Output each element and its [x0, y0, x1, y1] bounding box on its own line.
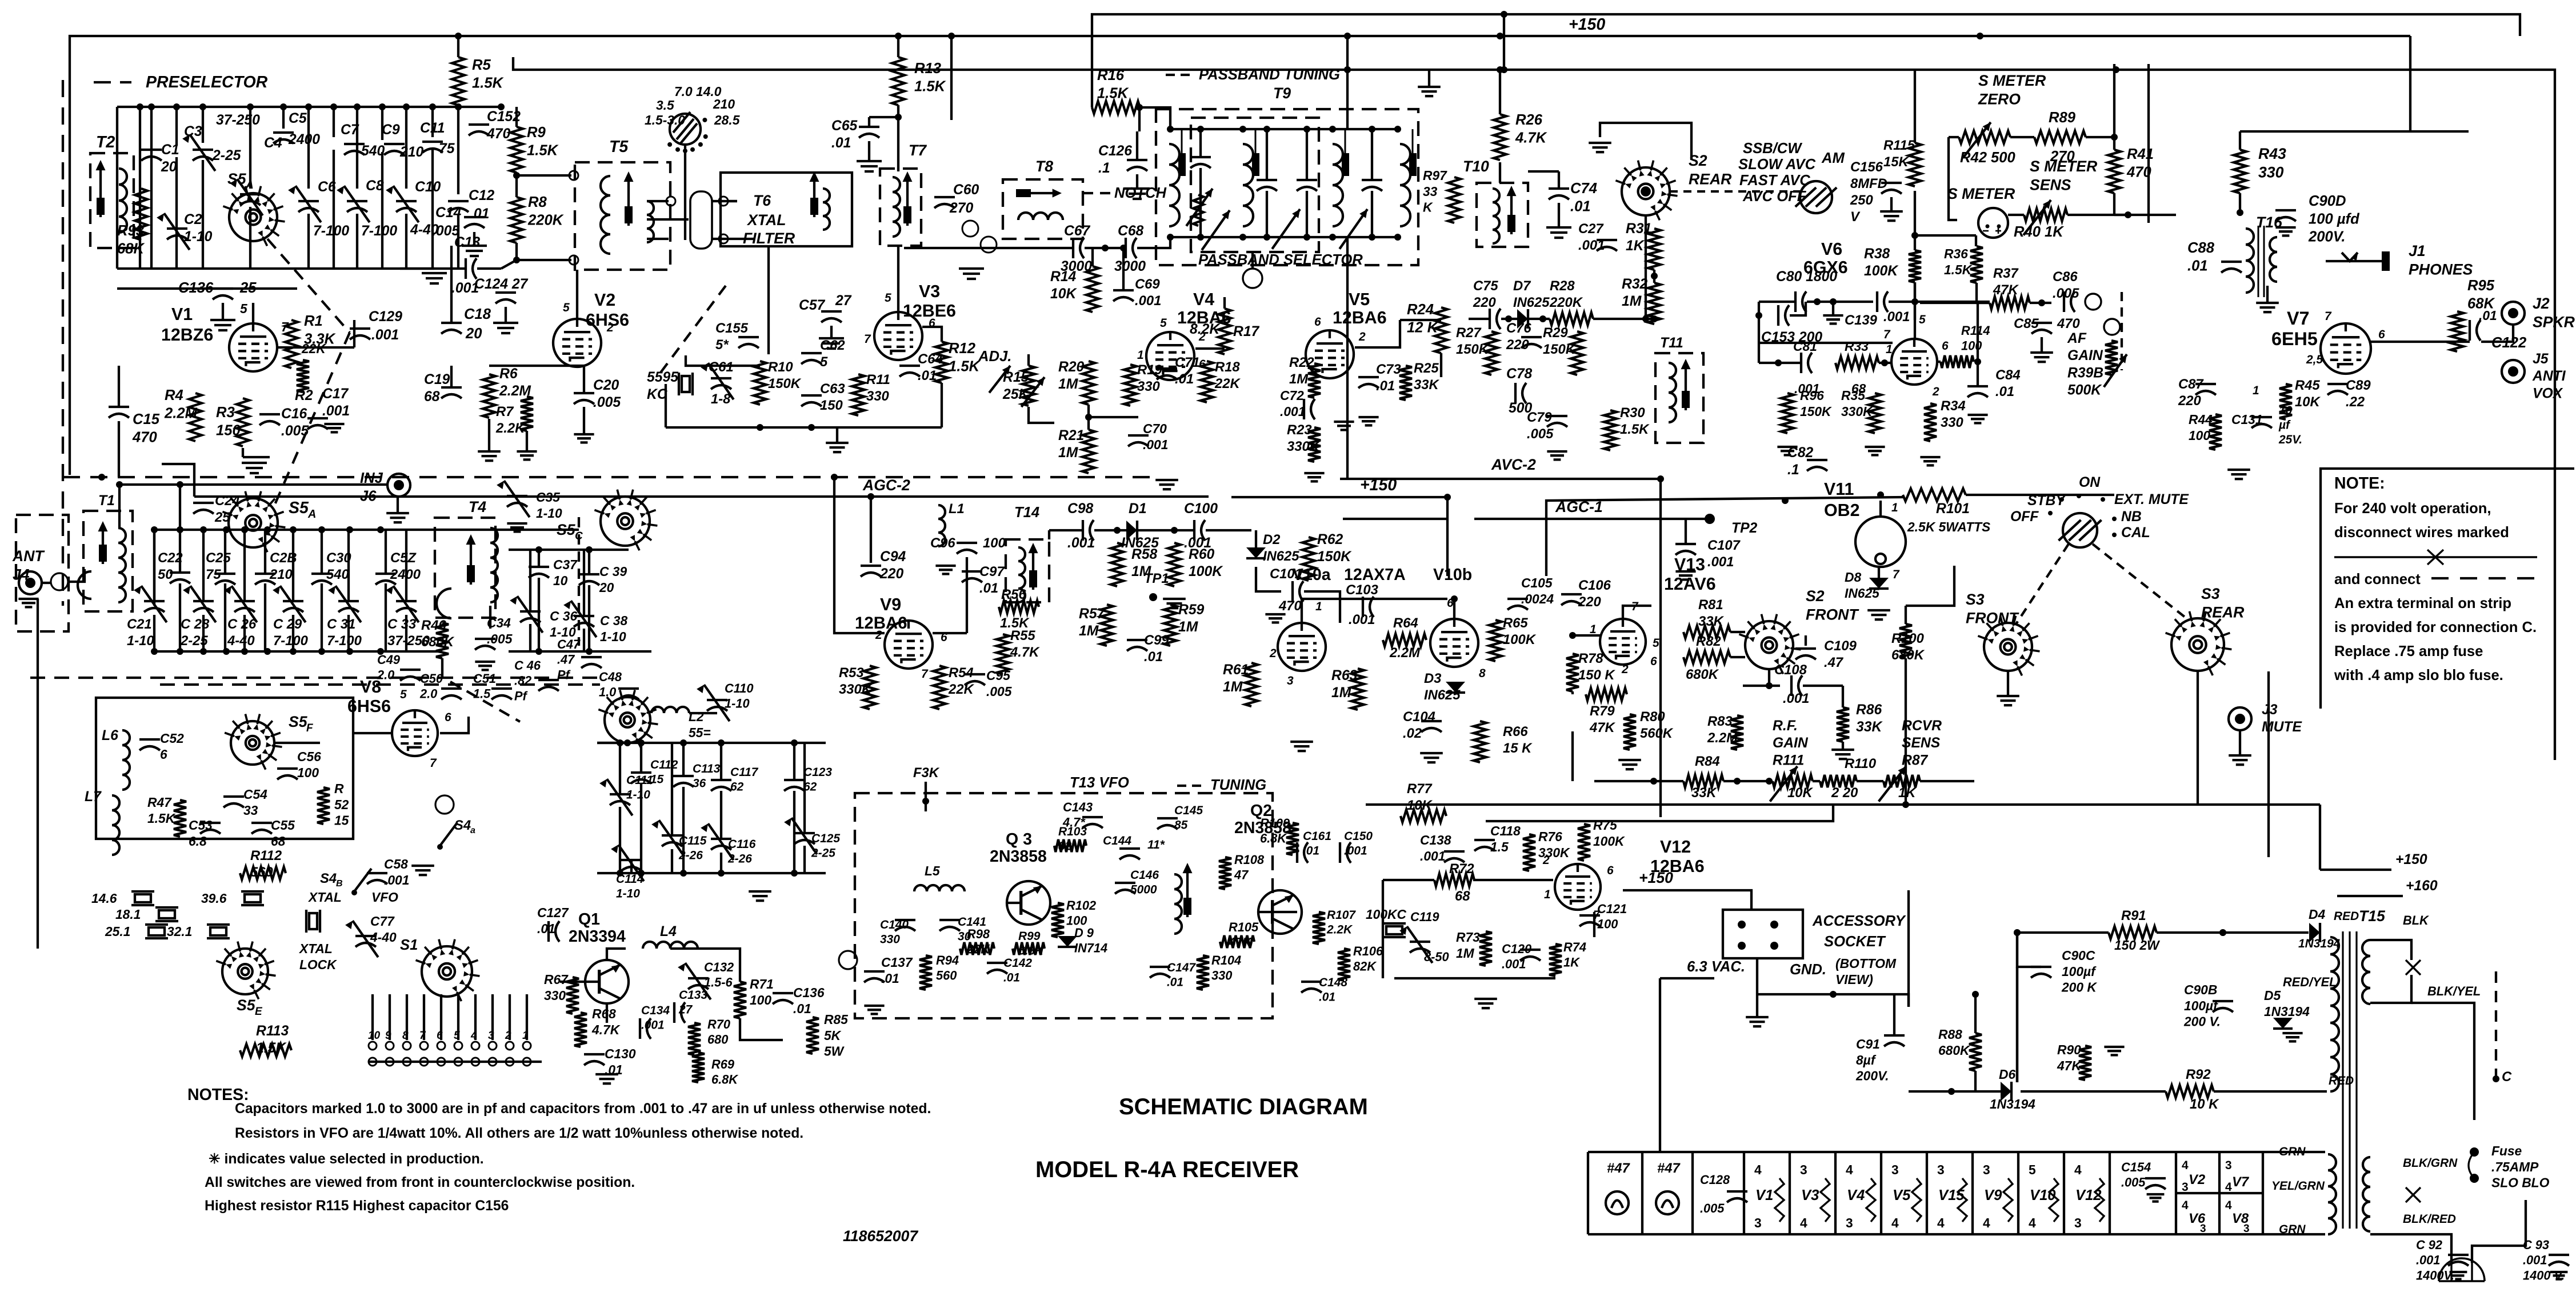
tube V7 heater 3: [2225, 1159, 2232, 1172]
capacitor C128 label: [1700, 1173, 1730, 1187]
junction T9 rail 2332: [1329, 126, 1336, 133]
capacitor C138 label: [1420, 833, 1451, 863]
capacitor C28b label: [269, 550, 297, 582]
capacitor C127 label: [537, 905, 569, 936]
wire osc right col: [941, 383, 943, 427]
svg-text:R108: R108: [1234, 853, 1265, 867]
transformer T1 box: [83, 511, 133, 611]
resistor R56 label: [1001, 587, 1026, 602]
resistor R84 value: [1691, 785, 1717, 801]
svg-text:100: 100: [1597, 917, 1618, 931]
wire heater bar v2: [2175, 1152, 2177, 1234]
capacitor C65: [859, 127, 879, 138]
transformer T5 label: [609, 138, 629, 156]
svg-text:R32: R32: [1622, 277, 1648, 292]
svg-text:27: 27: [678, 1003, 693, 1016]
transistor Q3 label: [1006, 830, 1032, 849]
svg-text:C97: C97: [979, 564, 1005, 579]
node AVC OFF: [1742, 189, 1807, 205]
switch S5A sub: [245, 179, 254, 191]
transformer T16 secondary: [2270, 237, 2277, 282]
svg-text:28.5: 28.5: [714, 113, 740, 127]
svg-text:C65: C65: [831, 118, 858, 134]
junction R43 bot: [2237, 209, 2243, 216]
svg-text:2: 2: [1621, 663, 1629, 676]
svg-text:S4: S4: [454, 818, 471, 833]
resistor R28 label: [1549, 278, 1583, 310]
resistor R64: [1383, 634, 1426, 646]
junction s5c d: [586, 648, 593, 655]
svg-text:6: 6: [1607, 864, 1614, 877]
node dial 1.5-3.0: [645, 113, 685, 127]
resistor R16: [1092, 101, 1140, 114]
node ON label: [2079, 475, 2101, 490]
svg-text:R46: R46: [421, 618, 446, 633]
svg-text:C145: C145: [1174, 804, 1203, 817]
resistor R89: [2034, 131, 2086, 143]
resistor R3: [237, 398, 249, 446]
svg-text:C21: C21: [127, 617, 152, 632]
svg-text:.001: .001: [1420, 849, 1445, 863]
svg-text:C108: C108: [1774, 662, 1807, 678]
svg-text:20: 20: [465, 326, 482, 342]
ground J1: [2256, 303, 2279, 312]
switch S1 terminal 7: [420, 1042, 428, 1050]
svg-text:1M: 1M: [1456, 946, 1475, 961]
svg-text:T8: T8: [1035, 158, 1053, 175]
svg-text:R83: R83: [1707, 714, 1733, 729]
svg-text:R31: R31: [1626, 221, 1651, 237]
svg-text:15: 15: [334, 813, 349, 828]
capacitor C37: [529, 567, 549, 578]
jack J6: [387, 474, 410, 497]
resistor R108: [1219, 857, 1231, 889]
crystal 5595KC label: [647, 370, 679, 402]
ground R34: [1920, 457, 1940, 465]
svg-text:S METER: S METER: [1947, 185, 2015, 202]
node NOTES title: [187, 1086, 249, 1104]
junction R26 top: [1497, 66, 1503, 73]
svg-text:C99: C99: [1144, 633, 1169, 648]
svg-text:R88: R88: [1938, 1027, 1962, 1042]
node XTAL LOCK label: [298, 941, 337, 972]
wire vert x2358 a: [1346, 36, 1349, 129]
wire S2f to C108: [1768, 669, 1770, 686]
diode D5 label: [2264, 988, 2310, 1019]
junction extra 3291-866: [1877, 491, 1884, 498]
switch S5A: [223, 186, 285, 246]
svg-text:T13 VFO: T13 VFO: [1070, 775, 1129, 791]
svg-text:R92: R92: [2186, 1067, 2211, 1082]
node NOTE l2: [2334, 525, 2509, 541]
wire t3 col C117 b: [720, 791, 722, 838]
capacitor C100 value: [1184, 535, 1211, 551]
svg-text:C 33: C 33: [387, 617, 416, 632]
capacitor C140: [895, 920, 915, 931]
switch S5A mixer: [222, 491, 285, 553]
svg-text:RCVR: RCVR: [1902, 718, 1942, 734]
svg-text:R54: R54: [949, 665, 974, 681]
svg-text:150K: 150K: [1456, 342, 1490, 357]
capacitor C110 label: [725, 681, 754, 711]
capacitor C128 value: [1700, 1201, 1725, 1215]
svg-text:39.6: 39.6: [201, 891, 227, 906]
resistor R110 label: [1845, 756, 1876, 771]
node dial dot 270: [683, 149, 687, 153]
svg-text:C150: C150: [1344, 830, 1373, 843]
capacitor C125 label: [811, 832, 840, 859]
capacitor C16: [259, 414, 280, 425]
wire preselector top rail: [117, 106, 501, 108]
capacitor C74: [1549, 189, 1569, 199]
svg-text:C77: C77: [370, 914, 395, 929]
node dial dot 315: [698, 142, 703, 147]
capacitor C52: [139, 739, 160, 750]
tube V1 heater number top: [1754, 1162, 1762, 1177]
ground S2 loop: [1589, 143, 1611, 152]
node doc number: [843, 1227, 918, 1245]
resistor R40 label: [2014, 224, 2065, 240]
svg-text:C82: C82: [1787, 445, 1814, 461]
svg-text:C129: C129: [369, 309, 402, 325]
resistor R97 label: [1423, 168, 1447, 215]
switch S4A label: [454, 818, 471, 833]
svg-text:R18: R18: [1215, 359, 1240, 375]
wire gain row d: [1857, 780, 1883, 782]
tube V6 pin2: [1932, 385, 1939, 398]
svg-text:R53: R53: [839, 665, 864, 681]
capacitor C127: [549, 921, 559, 942]
tube V1 heater zig: [1775, 1178, 1784, 1222]
wire stby dash a: [2016, 544, 2069, 624]
resistor R57 label: [1079, 606, 1106, 639]
resistor R64 value: [1389, 645, 1421, 661]
fuse dot a: [2470, 1147, 2479, 1157]
node dial dot 25: [702, 118, 707, 122]
resistor R37: [1990, 297, 2030, 309]
capacitor C49 label: [377, 653, 401, 682]
resistor R33 value: [1851, 381, 1866, 396]
svg-text:C88: C88: [2187, 240, 2215, 256]
switch S1 number 10: [368, 1030, 381, 1042]
capacitor C96: [957, 543, 977, 554]
resistor R52: [317, 787, 330, 824]
junction mixer brail 356: [200, 648, 207, 655]
resistor R89 value: [2050, 149, 2075, 165]
capacitor C84: [1967, 386, 1988, 397]
svg-text:R6: R6: [499, 366, 518, 382]
crystal 100KC label: [1366, 907, 1406, 922]
svg-text:6: 6: [1650, 655, 1657, 668]
transformer T8 label: [1035, 158, 1053, 175]
wire T9 bottom rail: [1170, 236, 1398, 238]
svg-text:S1: S1: [400, 937, 418, 953]
svg-text:C9: C9: [382, 122, 400, 138]
capacitor C129 label: [369, 309, 402, 325]
node S METER label: [1947, 185, 2015, 202]
wire T1 top drop: [118, 485, 121, 528]
capacitor C76 label: [1506, 321, 1531, 353]
node YEL/GRN: [2271, 1179, 2325, 1193]
tube V10a pin3: [1287, 674, 1294, 687]
resistor R29: [1571, 331, 1583, 375]
transformer T6 xtal: [746, 211, 786, 229]
tube V9 12BA6: [885, 621, 933, 669]
tube V9 pin6: [941, 631, 947, 644]
wire R5 bottom: [457, 105, 459, 107]
svg-text:1.5K: 1.5K: [949, 358, 981, 374]
capacitor C87: [2195, 384, 2216, 395]
resistor R64 label: [1393, 615, 1418, 631]
wire cluster link: [1089, 416, 1138, 418]
wire T5 sec a: [647, 200, 669, 202]
resistor R63: [1351, 669, 1364, 710]
capacitor C27 label: [1578, 221, 1605, 253]
svg-text:R115: R115: [1883, 138, 1915, 153]
svg-text:2: 2: [875, 629, 882, 642]
wire C80 row c: [1889, 301, 1990, 303]
resistor R102 label: [1066, 898, 1096, 928]
svg-text:V1: V1: [171, 305, 193, 324]
tube V3 heater label: [1801, 1187, 1819, 1203]
capacitor C81 label: [1793, 339, 1817, 354]
capacitor C47: [581, 657, 602, 668]
node +160 right: [2406, 878, 2438, 894]
wire heater bar 8: [2109, 1152, 2111, 1234]
wire presel col 355: [202, 160, 204, 269]
svg-text:D3: D3: [1424, 671, 1441, 686]
svg-text:R12: R12: [949, 341, 975, 357]
svg-text:C71: C71: [1175, 355, 1200, 370]
svg-text:R100: R100: [1891, 631, 1924, 646]
tube V1 heater number bottom: [1754, 1215, 1762, 1230]
resistor R31: [1648, 229, 1661, 270]
junction mixer rail 468: [264, 526, 271, 533]
svg-text:+150: +150: [1360, 476, 1397, 494]
tube V6 heater 3: [2200, 1223, 2206, 1235]
svg-text:C1: C1: [161, 142, 179, 158]
resistor R89 label: [2049, 110, 2076, 126]
switch S1 number 9: [385, 1030, 391, 1042]
resistor R67 label: [544, 972, 569, 1003]
svg-text:C61: C61: [709, 359, 734, 375]
svg-text:100: 100: [2189, 428, 2210, 443]
svg-text:An extra terminal on strip: An extra terminal on strip: [2334, 595, 2511, 611]
diode D9: [1058, 936, 1077, 947]
capacitor C136 value: [239, 280, 257, 296]
svg-text:✳ indicates value selected i: ✳ indicates value selected in production…: [209, 1151, 484, 1167]
capacitor C58: [367, 873, 387, 884]
svg-text:2 20: 2 20: [1831, 785, 1858, 801]
capacitor C61 variable: [701, 363, 734, 399]
svg-text:and connect: and connect: [2334, 571, 2421, 587]
resistor R25: [1399, 366, 1412, 400]
transformer T5 secondary: [647, 201, 654, 242]
capacitor C13 value: [451, 281, 479, 296]
svg-text:R33: R33: [1845, 339, 1869, 354]
diode D5: [2273, 1018, 2293, 1029]
svg-text:C70: C70: [1143, 421, 1167, 436]
svg-text:V11: V11: [1824, 479, 1854, 499]
svg-text:C79: C79: [1527, 410, 1552, 425]
capacitor C97: [962, 571, 982, 582]
capacitor C142: [987, 963, 1007, 974]
node SLOW AVC: [1738, 157, 1816, 173]
svg-text:RED/YEL: RED/YEL: [2283, 975, 2337, 989]
svg-text:C143: C143: [1063, 800, 1093, 814]
wire R86 gnd: [1842, 742, 1844, 750]
ground C35: [507, 523, 527, 531]
svg-text:T15: T15: [2359, 907, 2386, 925]
capacitor C132 label: [704, 960, 734, 990]
svg-text:R72: R72: [1449, 861, 1474, 877]
wire C dash: [2495, 971, 2497, 1077]
svg-text:220: 220: [2178, 393, 2201, 409]
junction t3 rail 1196: [680, 739, 687, 746]
svg-text:85: 85: [1174, 818, 1188, 831]
tube V8 heater label: [2232, 1211, 2249, 1226]
svg-text:C52: C52: [160, 731, 184, 746]
ground below C74: [1546, 227, 1571, 238]
capacitor C65 label: [831, 118, 858, 151]
svg-text:LOCK: LOCK: [299, 957, 337, 972]
tube V10a type: [1344, 566, 1406, 584]
ground C20: [574, 434, 594, 442]
capacitor C116 label: [727, 838, 756, 865]
svg-text:1.5-6: 1.5-6: [704, 975, 733, 990]
tube V13 pin2: [1621, 663, 1629, 676]
capacitor C119 value: [1424, 950, 1449, 964]
resistor R95 label: [2467, 278, 2495, 311]
svg-text:PRESELECTOR: PRESELECTOR: [146, 73, 268, 91]
svg-text:C 36: C 36: [550, 609, 577, 623]
junction c68 out: [1120, 245, 1127, 251]
junction extra 2906-838: [1657, 475, 1664, 482]
junction row928 a: [1114, 527, 1121, 534]
capacitor C86: [2064, 291, 2075, 312]
svg-text:6: 6: [437, 1030, 443, 1042]
tube V12 label: [1660, 837, 1691, 857]
node +150 top label: [1569, 15, 1605, 34]
junction t3 brail 1262: [718, 870, 725, 877]
svg-text:500K: 500K: [2067, 382, 2102, 398]
switch S1 terminal 2: [506, 1042, 514, 1050]
wire dial gang dash: [657, 286, 726, 377]
resistor R86: [1837, 707, 1849, 742]
wire T9 c1 col b: [1199, 168, 1202, 237]
tube V7 heater label: [2232, 1174, 2250, 1190]
resistor R82: [1683, 651, 1730, 663]
svg-text:2,5: 2,5: [2306, 353, 2323, 366]
node dial 3.5: [656, 98, 674, 113]
svg-text:R109: R109: [1260, 816, 1290, 830]
junction R100 drop: [1902, 801, 1909, 808]
svg-text:1-10: 1-10: [184, 229, 213, 245]
resistor R24 label: [1407, 302, 1439, 335]
wire R9 top: [515, 107, 518, 127]
tube V6 pin7: [1883, 328, 1891, 341]
wire C74 dn: [1558, 203, 1560, 227]
resistor R87 RCVR SENS: [1902, 718, 1942, 768]
capacitor C12 value: [470, 206, 489, 222]
svg-text:C126: C126: [1098, 143, 1132, 159]
wire osc left col: [665, 384, 667, 427]
capacitor C31 label: [327, 617, 362, 649]
svg-text:330: 330: [544, 988, 566, 1003]
inductor L1: [938, 505, 945, 546]
transformer T15 primary: [2330, 937, 2339, 1091]
tube V5 type: [1333, 308, 1387, 327]
svg-text:7: 7: [419, 1030, 426, 1042]
wire gain row e: [1920, 780, 1974, 782]
resistor R43: [2234, 150, 2246, 193]
svg-text:NB: NB: [2121, 509, 2142, 525]
capacitor C94: [861, 566, 881, 577]
transformer T6 winding: [823, 189, 830, 230]
wire mixcol b 315: [179, 583, 181, 651]
wire S1 row2 rail: [369, 1061, 542, 1063]
resistor R39B arrow: [2104, 354, 2127, 387]
svg-text:2: 2: [606, 321, 614, 334]
wire left dashed border: [62, 80, 64, 606]
resistor R69: [692, 1053, 705, 1082]
svg-text:330: 330: [866, 389, 889, 404]
resistor R42 pot: [1959, 122, 2010, 158]
ground C93: [2550, 1272, 2568, 1279]
svg-text:CAL: CAL: [2121, 525, 2150, 541]
ground below C136: [210, 320, 235, 330]
wire v12 box a: [1383, 879, 1434, 881]
capacitor C109 label: [1824, 638, 1857, 670]
svg-text:C94: C94: [880, 549, 906, 565]
wire top border: [70, 36, 2410, 366]
tube V8 pin5: [400, 688, 407, 701]
resistor R22: [1308, 363, 1321, 398]
ground notch area: [959, 269, 984, 279]
capacitor C107 label: [1707, 538, 1741, 570]
svg-text:62: 62: [730, 780, 744, 793]
ground below C14: [462, 246, 487, 256]
svg-text:11*: 11*: [1147, 838, 1165, 851]
diode D2: [1246, 547, 1266, 558]
wire vert x1345: [767, 246, 770, 354]
wire drop x625: [356, 107, 358, 189]
svg-text:D7: D7: [1513, 278, 1531, 294]
resistor R22 label: [1289, 355, 1314, 387]
svg-text:C 31: C 31: [327, 617, 355, 632]
resistor R75 label: [1593, 818, 1625, 849]
oscillator T13 VFO box: [855, 793, 1273, 1018]
svg-text:C109: C109: [1824, 638, 1857, 654]
svg-text:+150: +150: [1569, 15, 1605, 34]
resistor R62 label: [1317, 532, 1352, 565]
capacitor C64: [899, 366, 920, 377]
wire mixer rail: [154, 529, 579, 531]
wire gain row c: [1813, 780, 1820, 782]
wire c68 to T9: [1137, 237, 1170, 248]
wire C65 link: [869, 116, 898, 118]
svg-text:SLOW AVC: SLOW AVC: [1738, 157, 1816, 173]
wire Q1 coll: [607, 949, 626, 960]
transformer T14 slug: [1029, 543, 1038, 590]
resistor R41 label: [2126, 146, 2154, 180]
wire tuning dash: [1177, 785, 1206, 787]
tube V12 type: [1650, 857, 1705, 876]
capacitor C6 variable: [288, 186, 321, 222]
wire x3461 down: [1977, 303, 1979, 386]
svg-text:EXT. MUTE: EXT. MUTE: [2114, 492, 2189, 507]
wire S5D to rail: [597, 742, 627, 744]
